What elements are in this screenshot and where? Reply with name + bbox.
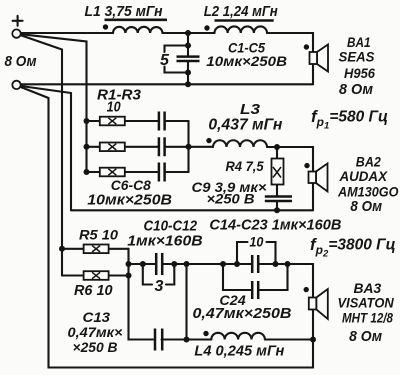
svg-text:C13: C13 <box>83 309 111 325</box>
svg-text:10мк×250В: 10мк×250В <box>87 193 172 209</box>
svg-text:AUDAX: AUDAX <box>339 169 388 184</box>
svg-text:C6-C8: C6-C8 <box>111 177 151 193</box>
svg-text:C14-C23 1мк×160В: C14-C23 1мк×160В <box>209 217 341 234</box>
svg-text:10: 10 <box>107 98 122 115</box>
svg-text:BA3: BA3 <box>354 281 382 296</box>
svg-text:BA1: BA1 <box>347 35 371 50</box>
svg-text:H956: H956 <box>344 66 375 81</box>
svg-text:L1 3,75 мГн: L1 3,75 мГн <box>85 4 163 20</box>
svg-text:5: 5 <box>160 52 170 69</box>
svg-text:МНТ 12/8: МНТ 12/8 <box>342 311 393 326</box>
svg-text:L4 0,245 мГн: L4 0,245 мГн <box>194 343 284 359</box>
svg-text:0,437 мГн: 0,437 мГн <box>208 117 283 134</box>
svg-text:10: 10 <box>249 234 263 250</box>
svg-text:8 Ом: 8 Ом <box>339 81 373 98</box>
svg-text:8 Ом: 8 Ом <box>349 328 382 345</box>
svg-text:0,47мк×250В: 0,47мк×250В <box>193 306 292 322</box>
svg-text:10мк×250В: 10мк×250В <box>206 53 287 69</box>
svg-text:L2 1,24 мГн: L2 1,24 мГн <box>204 4 278 20</box>
svg-text:R6 10: R6 10 <box>74 283 113 299</box>
svg-text:BA2: BA2 <box>356 155 381 170</box>
svg-text:1мк×160В: 1мк×160В <box>127 233 202 250</box>
svg-text:R5 10: R5 10 <box>79 226 118 242</box>
svg-text:×250 В: ×250 В <box>73 339 118 355</box>
svg-text:VISATON: VISATON <box>338 295 394 310</box>
svg-text:L3: L3 <box>240 101 261 118</box>
svg-text:8 Ом: 8 Ом <box>5 54 37 70</box>
svg-text:3: 3 <box>155 278 164 295</box>
svg-text:R4 7,5: R4 7,5 <box>226 158 264 174</box>
svg-text:SEAS: SEAS <box>339 50 375 65</box>
svg-text:8 Ом: 8 Ом <box>350 198 382 215</box>
svg-text:0,47мк×: 0,47мк× <box>68 324 123 340</box>
svg-text:×250 В: ×250 В <box>207 191 255 207</box>
